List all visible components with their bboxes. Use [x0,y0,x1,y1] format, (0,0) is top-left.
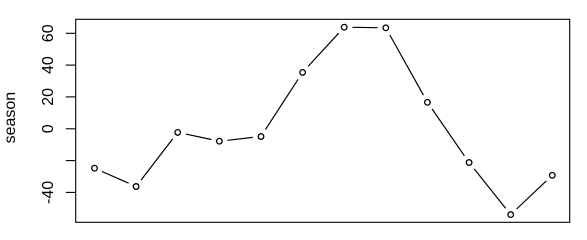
y tick 20 [66,96,76,98]
point 12 [550,173,556,179]
point 7 [341,24,347,30]
y tick 40 [66,64,76,66]
svg-text:season: season [2,92,19,144]
wire segment 5 [265,79,298,129]
y tick 0 [66,128,76,130]
wire segment 10 [474,169,505,208]
wire segment 11 [517,181,547,209]
svg-text:60: 60 [40,24,57,42]
svg-text:0: 0 [40,124,57,133]
point 6 [300,70,306,76]
wire segment 8 [390,35,424,95]
svg-text:-40: -40 [40,181,57,204]
wire segment 7 [352,26,377,28]
wire segment 2 [141,139,173,180]
svg-text:40: 40 [40,56,57,74]
point 11 [508,212,514,218]
point 3 [175,130,181,136]
point 10 [466,160,472,166]
y tick 60 [66,32,76,34]
point 1 [92,165,98,171]
wire segment 4 [228,137,253,140]
point 9 [425,100,431,106]
plot box [76,19,570,222]
point 5 [258,134,264,140]
y tick -20 [66,160,76,162]
wire segment 9 [432,109,464,156]
wire segment 6 [308,33,339,66]
point 2 [133,184,139,190]
y tick -40 [66,191,76,193]
wire segment 3 [186,134,212,139]
point 4 [217,138,223,144]
point 8 [383,25,389,31]
svg-text:20: 20 [40,88,57,106]
wire segment 1 [102,172,129,184]
